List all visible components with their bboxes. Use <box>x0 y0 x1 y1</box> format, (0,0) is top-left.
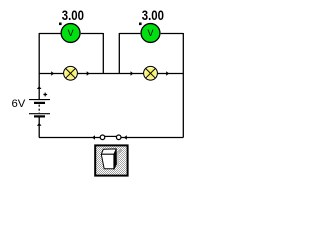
svg-text:V: V <box>147 28 153 38</box>
wire: left vertical lower (battery to bottom) <box>38 118 40 138</box>
wire: mid vertical 1 (x=103) <box>102 33 104 74</box>
icon shadow vertical <box>117 152 119 167</box>
wire: loop1 top-right segment <box>81 33 104 35</box>
battery dashed link <box>38 105 40 113</box>
icon front face <box>101 154 114 169</box>
current arrow on lamp row left of L1 <box>51 71 54 76</box>
current arrow up below battery <box>37 123 42 126</box>
voltmeter U2 body <box>141 24 160 43</box>
wire: mid vertical 2 (x=119) <box>118 33 120 74</box>
voltmeter U1 body <box>61 24 80 43</box>
switch icon inside button <box>101 149 121 170</box>
switch terminal circle right <box>116 135 121 140</box>
voltmeter U2 polarity dot <box>139 23 142 26</box>
wire: bottom left segment <box>39 137 100 139</box>
lamp L2 <box>144 66 158 80</box>
voltmeter U1 polarity dot <box>59 23 62 26</box>
lamp L1 <box>64 66 78 80</box>
svg-text:3.00: 3.00 <box>142 8 164 23</box>
current arrow on lamp row left of L2 <box>131 71 134 76</box>
icon shadow diagonal <box>116 149 121 154</box>
svg-text:V: V <box>68 28 74 38</box>
battery long plate 2 <box>29 113 50 115</box>
battery plus sign <box>43 93 47 97</box>
switch blade <box>104 135 118 137</box>
wire: right vertical (x=183) <box>182 33 184 138</box>
switch S1 (closed) <box>100 135 121 140</box>
icon top face <box>101 149 116 154</box>
wire: lamp row left of L1 <box>39 73 64 75</box>
wire: left vertical upper (x=39, y33-99) <box>38 33 40 99</box>
svg-text:6V: 6V <box>12 98 26 110</box>
switch terminal circle left <box>100 135 105 140</box>
current arrow on lamp row right of L2 <box>166 71 169 76</box>
wire: loop1 top-left segment <box>39 33 61 35</box>
battery short plate 2 <box>34 115 45 117</box>
wire: lamp row between L1 and L2 <box>78 73 144 75</box>
wire: lamp row right of L2 <box>158 73 184 75</box>
battery B1 <box>29 93 50 117</box>
wire: bottom right segment <box>121 137 183 139</box>
current arrow on lamp row right of L1 <box>87 71 90 76</box>
switch control button box <box>95 145 127 175</box>
wire: loop2 top-left segment <box>119 33 140 35</box>
svg-text:3.00: 3.00 <box>62 8 84 23</box>
wire: loop2 top-right segment <box>161 33 184 35</box>
battery short plate 1 <box>34 102 45 104</box>
icon side face <box>114 149 117 170</box>
current arrow left on bottom wire (right of switch) <box>124 135 127 140</box>
battery long plate 1 <box>29 99 50 101</box>
current arrow left on bottom wire (left of switch) <box>92 135 95 140</box>
current arrow up above battery <box>37 86 42 89</box>
